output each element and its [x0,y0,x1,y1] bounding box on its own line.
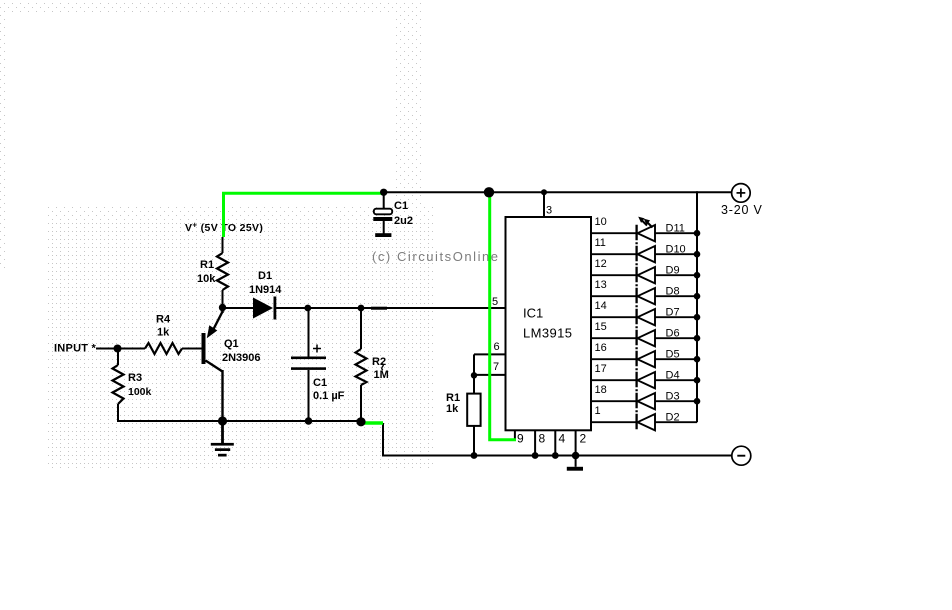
svg-text:D6: D6 [666,328,680,340]
svg-text:D9: D9 [666,265,680,277]
svg-text:9: 9 [517,432,524,446]
svg-text:D10: D10 [666,244,686,256]
svg-text:D4: D4 [666,370,680,382]
svg-text:2: 2 [580,432,587,446]
svg-text:D8: D8 [666,286,680,298]
svg-text:11: 11 [595,237,606,249]
svg-text:R3: R3 [128,372,142,384]
svg-text:D5: D5 [666,349,680,361]
svg-text:3: 3 [546,205,552,217]
svg-text:1k: 1k [446,403,459,415]
svg-text:R4: R4 [156,314,171,326]
svg-text:10: 10 [595,216,607,228]
svg-text:1M: 1M [374,369,389,381]
svg-text:R1: R1 [200,259,214,271]
svg-text:1N914: 1N914 [249,284,282,296]
svg-text:Q1: Q1 [224,338,239,350]
svg-text:4: 4 [559,432,566,446]
svg-text:D11: D11 [666,223,685,235]
svg-text:D1: D1 [258,270,272,282]
svg-text:14: 14 [595,300,607,312]
svg-text:15: 15 [595,321,607,333]
svg-text:D7: D7 [666,307,680,319]
svg-text:18: 18 [595,384,607,396]
svg-text:INPUT *: INPUT * [54,343,97,355]
svg-text:2N3906: 2N3906 [222,352,261,364]
svg-text:C1: C1 [313,377,327,389]
svg-text:17: 17 [595,363,607,375]
svg-text:(c) CircuitsOnline: (c) CircuitsOnline [372,249,500,264]
svg-text:8: 8 [539,432,546,446]
svg-text:1k: 1k [157,327,170,339]
svg-text:16: 16 [595,342,607,354]
svg-text:3-20 V: 3-20 V [721,203,763,217]
svg-text:LM3915: LM3915 [523,326,572,341]
svg-text:6: 6 [494,341,500,353]
svg-text:IC1: IC1 [523,306,543,321]
svg-text:2u2: 2u2 [394,215,413,227]
svg-text:1: 1 [595,405,601,417]
svg-text:12: 12 [595,258,607,270]
svg-text:13: 13 [595,279,607,291]
svg-text:D2: D2 [666,412,680,424]
svg-text:5: 5 [492,296,498,308]
svg-text:R2: R2 [372,356,386,368]
svg-text:100k: 100k [128,386,152,398]
svg-text:0.1 µF: 0.1 µF [313,390,345,402]
svg-text:C1: C1 [394,200,408,212]
svg-text:10k: 10k [197,273,216,285]
svg-text:7: 7 [493,361,499,373]
svg-text:D3: D3 [666,391,680,403]
